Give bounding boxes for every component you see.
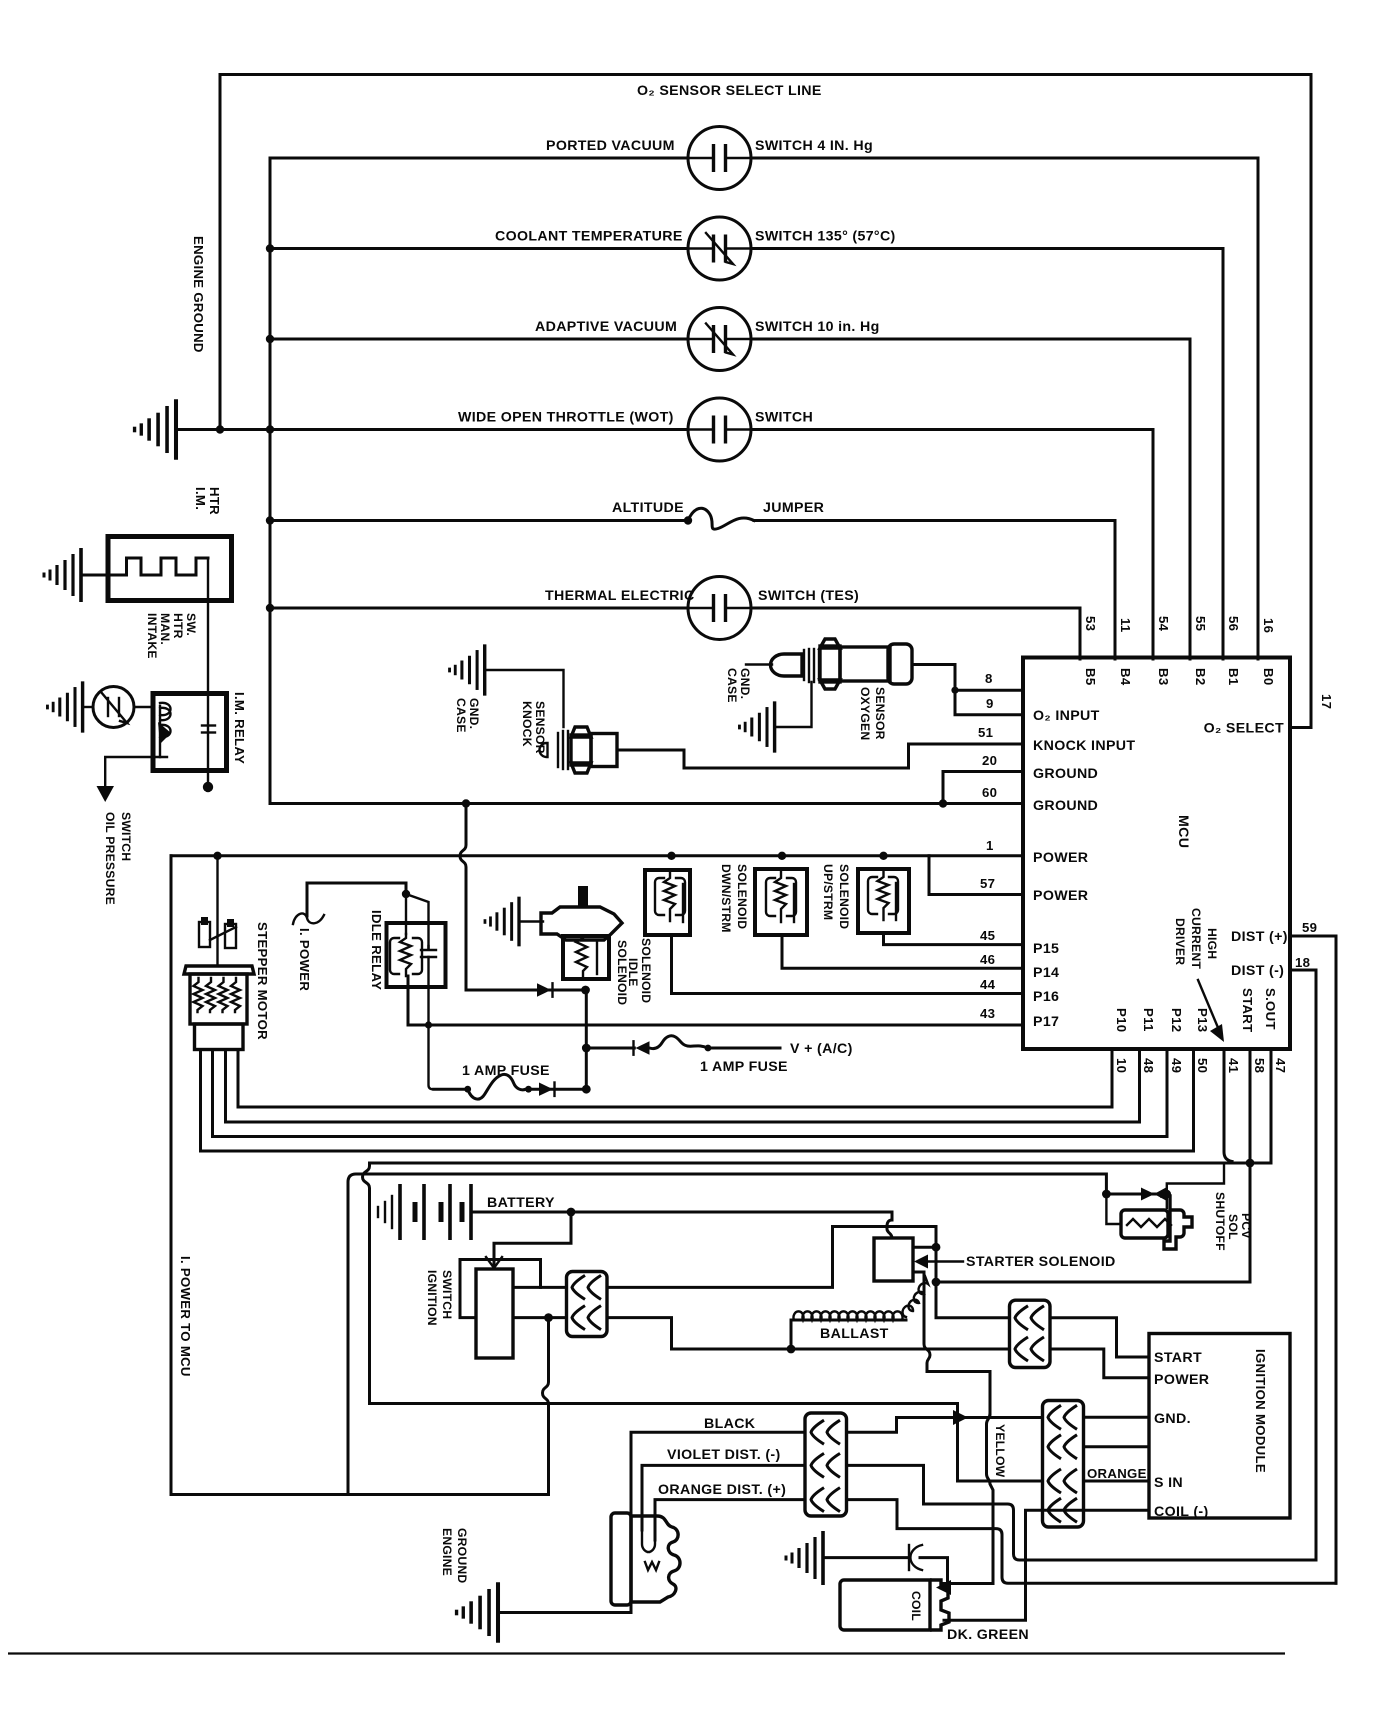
svg-text:57: 57 <box>980 876 995 891</box>
wire: thermal electric line <box>270 607 688 610</box>
wire: knock sensor to MCU pin 51 <box>617 744 1023 768</box>
svg-text:SWITCH 4 IN. Hg: SWITCH 4 IN. Hg <box>755 138 873 154</box>
wire: power rail to MCU pin 1 <box>171 854 1023 857</box>
svg-text:GND.: GND. <box>467 698 481 729</box>
svg-text:51: 51 <box>978 725 993 740</box>
wire: connector row2 to module <box>1084 1445 1150 1448</box>
op-amp U1: MCU box <box>1023 658 1290 1050</box>
wire: black continuation to module ground junction <box>847 1418 953 1433</box>
wire: ported vacuum line <box>270 157 688 160</box>
wire: engine ground riser to top line <box>219 75 222 430</box>
wire: ballast left leg <box>790 1320 793 1349</box>
svg-text:10: 10 <box>1114 1058 1129 1073</box>
wire: orange path to DIST(+) <box>847 1500 1337 1584</box>
svg-text:O₂ SENSOR SELECT LINE: O₂ SENSOR SELECT LINE <box>637 83 822 99</box>
svg-text:P10: P10 <box>1114 1008 1129 1032</box>
connector J4: start/power connector (2 row) <box>1010 1300 1051 1367</box>
svg-text:COIL: COIL <box>909 1591 923 1621</box>
ground: knock sensor case ground <box>450 644 485 695</box>
svg-text:INTAKE: INTAKE <box>145 613 159 659</box>
svg-text:45: 45 <box>980 928 995 943</box>
wire: yellow wire with label gap <box>987 1414 994 1523</box>
svg-text:START: START <box>1240 988 1255 1032</box>
svg-text:POWER: POWER <box>1033 850 1088 866</box>
wire: S IN drop from arrow junction <box>958 1418 1043 1482</box>
wire: coolant temperature line <box>270 247 688 250</box>
svg-text:STARTER SOLENOID: STARTER SOLENOID <box>966 1254 1116 1270</box>
motor M1: stepper motor <box>184 917 254 1050</box>
wire: line B PCV feed long run <box>348 1174 1106 1495</box>
svg-text:S.OUT: S.OUT <box>1263 988 1278 1030</box>
wire: stepper leads to P10-P13 runs <box>238 1049 1112 1107</box>
svg-text:SWITCH (TES): SWITCH (TES) <box>758 588 859 604</box>
wire: ignition feed riser with hop over line at 1393.5 <box>543 1318 549 1495</box>
wire: line A (pins 41/47) long run <box>370 1049 1272 1163</box>
wire: power rail into stepper motor <box>216 856 218 966</box>
svg-text:50: 50 <box>1195 1058 1210 1073</box>
svg-text:B3: B3 <box>1156 668 1171 685</box>
wire: adaptive vacuum line <box>270 338 688 341</box>
svg-text:DK. GREEN: DK. GREEN <box>947 1627 1029 1643</box>
wire: relay coil to oil pressure switch arrow <box>105 757 167 788</box>
svg-text:SWITCH: SWITCH <box>755 410 813 426</box>
svg-text:60: 60 <box>982 785 997 800</box>
svg-text:OXYGEN: OXYGEN <box>858 687 872 740</box>
distributor housing and pickup coil <box>611 1513 680 1605</box>
fuse F2: 1 amp fuse (upper) to V+(A/C) <box>586 1047 634 1050</box>
svg-text:VIOLET DIST. (-): VIOLET DIST. (-) <box>667 1447 781 1463</box>
svg-text:COIL (-): COIL (-) <box>1154 1504 1209 1520</box>
svg-text:43: 43 <box>980 1006 995 1021</box>
wire: ignition switch outputs to connector <box>513 1286 567 1289</box>
svg-text:O₂ INPUT: O₂ INPUT <box>1033 708 1100 724</box>
coil: ignition coil box <box>840 1580 930 1630</box>
svg-text:THERMAL ELECTRIC: THERMAL ELECTRIC <box>545 588 695 604</box>
svg-text:ORANGE DIST. (+): ORANGE DIST. (+) <box>658 1482 786 1498</box>
solenoid: upstream solenoid box <box>858 869 909 933</box>
ground: oil pressure switch ground <box>47 681 82 732</box>
solenoid: idle mixture solenoid valve body <box>541 907 622 940</box>
svg-text:B5: B5 <box>1083 668 1098 685</box>
relay: starter solenoid box <box>874 1238 913 1281</box>
sensor: oxygen sensor <box>746 639 912 689</box>
svg-text:IDLE: IDLE <box>626 958 640 987</box>
wire: connector to module GND <box>1084 1416 1150 1419</box>
svg-text:ADAPTIVE VACUUM: ADAPTIVE VACUUM <box>535 319 677 335</box>
svg-text:9: 9 <box>986 696 994 711</box>
solenoid coil box <box>563 936 609 979</box>
wire: fuse junction riser <box>585 990 588 1089</box>
svg-text:KNOCK INPUT: KNOCK INPUT <box>1033 738 1135 754</box>
op-amp U2: ignition module box <box>1149 1334 1290 1519</box>
resistor: ballast with rising spring to solenoid <box>794 1311 903 1320</box>
svg-text:CASE: CASE <box>725 668 739 703</box>
svg-text:P17: P17 <box>1033 1014 1059 1030</box>
heater: intake manifold heater box <box>108 537 232 601</box>
svg-text:GND.: GND. <box>738 668 752 699</box>
svg-text:SOLENOID: SOLENOID <box>735 864 749 929</box>
svg-text:44: 44 <box>980 977 996 992</box>
svg-text:20: 20 <box>982 753 997 768</box>
solenoid: PCV shutoff solenoid <box>1106 1194 1121 1224</box>
svg-text:46: 46 <box>980 952 995 967</box>
hook: I. POWER pigtail <box>293 913 324 924</box>
svg-text:SENSOR: SENSOR <box>533 701 547 754</box>
wire: MCU pin 20 ground loop <box>943 772 1023 804</box>
wire: pin 58 START drop <box>936 1049 1250 1282</box>
jumper: altitude jumper squiggle <box>688 508 754 529</box>
svg-text:P14: P14 <box>1033 965 1059 981</box>
wire: pin 41 high-current-driver drop to line A <box>1224 1049 1232 1162</box>
wire: run/start feed to starter solenoid junction <box>607 1227 1010 1318</box>
switch S2: coolant temperature switch 135 (NC) <box>688 217 751 280</box>
svg-text:IGNITION: IGNITION <box>425 1270 439 1326</box>
svg-text:I.M.: I.M. <box>193 487 208 510</box>
svg-text:47: 47 <box>1273 1058 1288 1073</box>
svg-text:DIST (-): DIST (-) <box>1231 963 1284 979</box>
wire: oxygen sensor to case ground <box>775 682 812 727</box>
svg-text:8: 8 <box>985 671 993 686</box>
wire: switch feed vertical bus <box>269 158 272 804</box>
wire: P15 line from upstream solenoid <box>884 933 1024 945</box>
svg-text:UP/STRM: UP/STRM <box>821 864 835 920</box>
svg-text:GND.: GND. <box>1154 1411 1191 1427</box>
battery B1 <box>378 1184 471 1240</box>
svg-text:ALTITUDE: ALTITUDE <box>612 500 684 516</box>
wire: battery to starter solenoid with hop <box>887 1212 892 1238</box>
switch: ignition switch <box>476 1269 513 1358</box>
wire: altitude line with jumper <box>270 519 688 522</box>
svg-text:B1: B1 <box>1226 668 1241 685</box>
ground: idle mixture solenoid ground <box>485 897 519 947</box>
svg-text:SHUTOFF: SHUTOFF <box>1213 1192 1227 1251</box>
wire: MCU pin 60 ground rail <box>270 802 1023 805</box>
ground: intake manifold heater ground <box>44 548 81 602</box>
node: bottom rule line <box>8 1652 1285 1654</box>
svg-text:11: 11 <box>1118 618 1133 633</box>
switch S3: adaptive vacuum switch 10 in Hg (NC) <box>688 308 751 371</box>
svg-text:I. POWER: I. POWER <box>297 928 312 991</box>
svg-text:S IN: S IN <box>1154 1475 1183 1491</box>
svg-text:B4: B4 <box>1118 668 1133 686</box>
svg-text:HTR: HTR <box>171 613 185 639</box>
connector J1: ignition connector <box>567 1272 608 1337</box>
svg-text:START: START <box>1154 1350 1202 1366</box>
wire: I. POWER to idle relay <box>307 883 406 916</box>
svg-text:ENGINE GROUND: ENGINE GROUND <box>191 236 206 353</box>
svg-text:I.M. RELAY: I.M. RELAY <box>232 692 247 764</box>
svg-text:BALLAST: BALLAST <box>820 1326 889 1342</box>
svg-text:P12: P12 <box>1169 1008 1184 1032</box>
junction: WOT line at engine ground riser <box>216 425 224 433</box>
svg-text:SENSOR: SENSOR <box>873 687 887 740</box>
connector J3: ignition module connector (4 row) <box>1043 1401 1084 1528</box>
svg-text:SWITCH: SWITCH <box>119 812 133 861</box>
svg-text:HIGH: HIGH <box>1205 928 1219 959</box>
svg-text:41: 41 <box>1226 1058 1241 1073</box>
wire: pin 57 power riser <box>929 856 1023 895</box>
svg-text:16: 16 <box>1261 618 1276 633</box>
svg-text:BLACK: BLACK <box>704 1416 756 1432</box>
svg-text:JUMPER: JUMPER <box>763 500 824 516</box>
svg-text:V + (A/C): V + (A/C) <box>790 1041 853 1057</box>
diode D1: feed diode into idle mixture solenoid <box>466 989 586 992</box>
wire: ignition switch accessory loop <box>460 1260 541 1318</box>
relay contact on heater lead <box>207 694 209 771</box>
wire: idle relay capacitor leg down to fuse line <box>429 957 434 1089</box>
svg-text:GROUND: GROUND <box>1033 798 1098 814</box>
svg-text:49: 49 <box>1169 1058 1184 1073</box>
svg-text:56: 56 <box>1226 616 1241 631</box>
svg-text:48: 48 <box>1141 1058 1156 1073</box>
svg-text:O₂ SELECT: O₂ SELECT <box>1204 721 1284 737</box>
wire: left power rail down (I. POWER TO MCU) <box>171 856 549 1495</box>
switch S5: thermal electric switch (TES) <box>688 577 751 640</box>
ground: oxygen sensor case ground <box>739 701 774 752</box>
svg-text:GROUND: GROUND <box>1033 766 1098 782</box>
svg-text:DRIVER: DRIVER <box>1173 918 1187 965</box>
svg-text:SOLENOID: SOLENOID <box>837 864 851 929</box>
svg-text:17: 17 <box>1319 694 1334 709</box>
svg-text:STEPPER MOTOR: STEPPER MOTOR <box>255 922 270 1040</box>
svg-text:SOL: SOL <box>1226 1214 1240 1240</box>
svg-text:59: 59 <box>1302 920 1317 935</box>
wire: yellow lower to coil arrow <box>944 1523 993 1584</box>
svg-text:ORANGE: ORANGE <box>1087 1466 1147 1481</box>
svg-text:54: 54 <box>1156 616 1171 632</box>
wire: line A left drop with hop, to arrow junction feed <box>363 1163 958 1428</box>
wire: violet path to DIST(-) <box>847 1465 1317 1560</box>
svg-text:DIST (+): DIST (+) <box>1231 929 1288 945</box>
svg-text:CASE: CASE <box>454 698 468 733</box>
svg-text:COOLANT TEMPERATURE: COOLANT TEMPERATURE <box>495 229 683 245</box>
wire: P14 line from downstream solenoid <box>782 935 1023 968</box>
wire: coil(-) dark green run <box>944 1510 1149 1620</box>
svg-text:POWER: POWER <box>1033 888 1088 904</box>
wire: connector to module S IN <box>1084 1480 1150 1483</box>
svg-text:58: 58 <box>1252 1058 1267 1073</box>
svg-text:HTR: HTR <box>207 487 222 515</box>
pin 17: O2 select stub <box>1290 726 1311 729</box>
svg-text:PORTED VACUUM: PORTED VACUUM <box>546 138 675 154</box>
svg-text:MAN.: MAN. <box>158 613 172 645</box>
sensor: knock sensor <box>540 727 617 773</box>
svg-text:PCV: PCV <box>1239 1213 1253 1239</box>
svg-text:IDLE RELAY: IDLE RELAY <box>369 910 384 990</box>
svg-text:DWN/STRM: DWN/STRM <box>719 864 733 933</box>
svg-text:53: 53 <box>1083 616 1098 631</box>
svg-text:B2: B2 <box>1193 668 1208 685</box>
svg-text:1 AMP FUSE: 1 AMP FUSE <box>700 1059 788 1075</box>
svg-text:POWER: POWER <box>1154 1372 1209 1388</box>
heater element <box>108 558 208 575</box>
wire: P17 line from idle relay <box>408 976 1023 1025</box>
switch S1: ported vacuum switch 4 in Hg <box>688 127 751 190</box>
wire: WOT line <box>176 428 688 431</box>
switch S4: wide open throttle switch <box>688 398 751 461</box>
capacitor C1: coil condenser <box>823 1556 909 1559</box>
svg-text:18: 18 <box>1295 955 1310 970</box>
wire: battery to ignition switch arrow <box>494 1212 571 1269</box>
wire: connector to module POWER <box>1050 1349 1149 1378</box>
solenoid: downstream solenoid box <box>755 869 807 935</box>
svg-text:SWITCH: SWITCH <box>440 1270 454 1319</box>
svg-text:CURRENT: CURRENT <box>1189 908 1203 969</box>
wire: case-ground drop with hop over power rail <box>460 804 466 991</box>
svg-text:KNOCK: KNOCK <box>520 701 534 747</box>
wire: heater to I.M. relay <box>207 558 209 694</box>
svg-text:B0: B0 <box>1261 668 1276 685</box>
wire: battery positive feed <box>471 1211 892 1214</box>
svg-text:P16: P16 <box>1033 989 1059 1005</box>
svg-text:I. POWER TO MCU: I. POWER TO MCU <box>178 1256 193 1377</box>
diode D2: PCV shutoff diode pair <box>1106 1193 1166 1196</box>
wire: case ground to knock sensor <box>485 670 564 727</box>
wire: oxygen sensor to MCU pins 8 and 9 <box>912 665 1023 715</box>
svg-text:IGNITION MODULE: IGNITION MODULE <box>1253 1349 1268 1473</box>
svg-text:GROUND: GROUND <box>455 1528 469 1583</box>
wire: connector to module START <box>1050 1318 1149 1357</box>
ground: engine ground (top left) <box>135 399 176 459</box>
svg-text:P13: P13 <box>1195 1008 1210 1032</box>
svg-text:SWITCH 10 in. Hg: SWITCH 10 in. Hg <box>755 319 880 335</box>
solenoid: idle solenoid box <box>645 870 690 935</box>
svg-text:MCU: MCU <box>1175 815 1191 848</box>
wire: starter solenoid I-terminal yellow drop with hop <box>913 1272 990 1414</box>
wire: ignition run output to ballast line <box>607 1318 1010 1349</box>
svg-text:SW.: SW. <box>184 613 198 636</box>
wire: P16 line from idle solenoid box <box>672 935 1024 994</box>
relay K2: idle relay box <box>387 923 446 987</box>
svg-text:1: 1 <box>986 838 994 853</box>
svg-text:1 AMP FUSE: 1 AMP FUSE <box>462 1063 550 1079</box>
fuse F1: 1 amp fuse (lower) <box>464 1086 471 1093</box>
svg-text:BATTERY: BATTERY <box>487 1195 555 1211</box>
svg-text:WIDE OPEN THROTTLE (WOT): WIDE OPEN THROTTLE (WOT) <box>458 410 674 426</box>
ground: coil condenser ground <box>786 1531 823 1585</box>
ground: engine ground (bottom) <box>457 1582 498 1642</box>
svg-text:P11: P11 <box>1141 1008 1156 1032</box>
svg-text:SWITCH 135° (57°C): SWITCH 135° (57°C) <box>755 229 896 245</box>
svg-text:P15: P15 <box>1033 941 1059 957</box>
node: O2 sensor select line (top) <box>220 75 1311 728</box>
relay coil <box>160 703 171 757</box>
connector J2: distributor connector <box>805 1413 847 1516</box>
switch: oil pressure switch contact circle <box>93 687 134 728</box>
svg-text:ENGINE: ENGINE <box>440 1528 454 1576</box>
junction: relay output terminal dot <box>207 771 209 787</box>
svg-text:55: 55 <box>1193 616 1208 631</box>
svg-text:OIL PRESSURE: OIL PRESSURE <box>103 812 117 905</box>
svg-text:SOLENOID: SOLENOID <box>639 938 653 1003</box>
svg-text:YELLOW: YELLOW <box>993 1424 1007 1478</box>
relay K1: I.M. relay box <box>153 694 227 771</box>
